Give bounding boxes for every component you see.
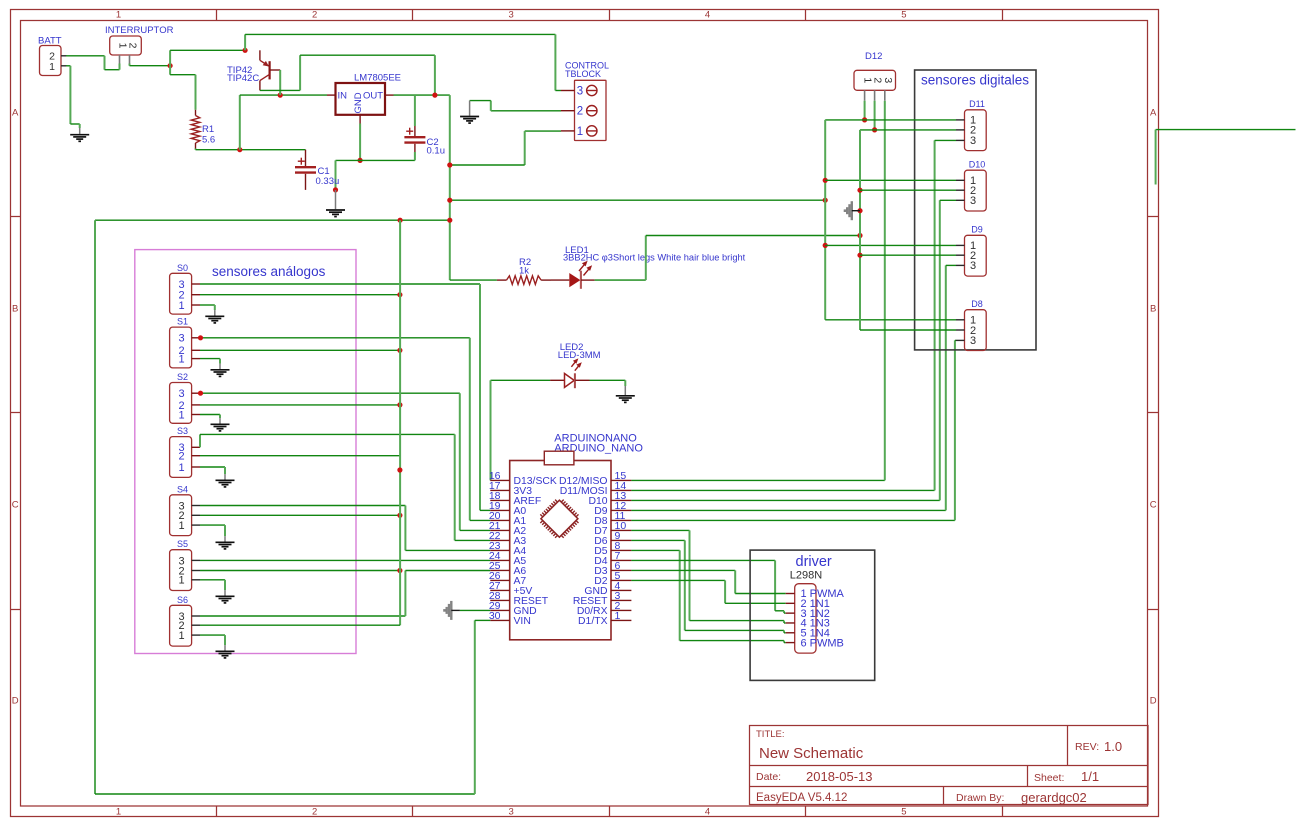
regulator U1 LM7805EE — [336, 73, 402, 115]
pin 29 GND of U2 — [489, 600, 537, 617]
pin 3 of S1 — [192, 337, 200, 339]
pin 18 AREF of U2 — [489, 490, 541, 507]
svg-text:1: 1 — [178, 520, 184, 532]
svg-text:S2: S2 — [177, 372, 188, 382]
svg-text:3: 3 — [577, 86, 583, 98]
junction S4.2 — [397, 513, 402, 518]
svg-text:TIP42C: TIP42C — [227, 73, 259, 84]
wire bus VIN loop top — [95, 219, 450, 221]
wire pin13 to D10.3 rail — [631, 200, 956, 500]
wire S5.2 to S rail — [200, 570, 400, 572]
svg-text:S1: S1 — [177, 317, 188, 327]
wire S4.2 to S rail — [200, 514, 400, 516]
pin 1 D1/TX of U2 — [578, 610, 631, 627]
pin 2 of D9 — [956, 254, 965, 256]
svg-text:INTERRUPTOR: INTERRUPTOR — [105, 25, 174, 36]
svg-text:1: 1 — [116, 10, 121, 21]
svg-text:S6: S6 — [177, 595, 188, 605]
label R2 1k — [519, 257, 531, 277]
label R1 value 5.6 — [202, 124, 215, 146]
wire junction up to TIP42 emitter node — [170, 50, 245, 65]
wire CONTROL pin1 to +5V rail — [450, 131, 561, 165]
svg-text:1: 1 — [615, 610, 621, 622]
LED LED1 — [551, 261, 595, 289]
pin 3 of D9 — [956, 264, 965, 266]
pin 3 of driver — [786, 608, 830, 620]
pin 9 D6 of U2 — [594, 530, 631, 547]
svg-text:L298N: L298N — [790, 570, 822, 582]
pin 23 A4 of U2 — [489, 540, 527, 557]
svg-text:C: C — [1150, 500, 1157, 511]
junction S5.2 — [397, 568, 402, 573]
pin 2 of S0 — [192, 294, 200, 296]
connector BATT — [38, 36, 62, 76]
wire S6.3 to A6 — [200, 571, 490, 617]
svg-text:3: 3 — [970, 195, 976, 207]
connector CONTROL TBLOCK — [565, 61, 609, 141]
svg-text:1: 1 — [49, 61, 55, 73]
pin 5 of driver — [786, 627, 830, 639]
pin 2 of S1 — [192, 349, 200, 351]
ground at S6 — [216, 645, 235, 658]
pin 3 of S0 — [192, 283, 200, 285]
wire LED2 cathode to ground — [590, 380, 626, 386]
wire S5.1 to ground — [200, 580, 225, 590]
svg-text:D12: D12 — [865, 51, 882, 62]
pin 14 D11/MOSI of U2 — [560, 480, 632, 497]
connector INTERRUPTOR — [105, 25, 174, 55]
wire R1 bottom to C1 top — [196, 149, 306, 150]
svg-text:3: 3 — [178, 388, 184, 400]
pin 20 A1 of U2 — [489, 510, 527, 527]
svg-text:OUT: OUT — [363, 91, 383, 102]
connector S5 — [170, 539, 192, 590]
svg-text:TBLOCK: TBLOCK — [565, 69, 601, 79]
connector S0 — [170, 263, 192, 314]
pin 3 of D8 — [956, 339, 965, 341]
wire S rail vertical to S6.2 — [200, 220, 400, 625]
wire TIP42 base to IN line — [279, 70, 281, 95]
ground at S0 — [205, 310, 224, 323]
svg-text:3: 3 — [970, 335, 976, 347]
pin 2 of D10 — [956, 189, 965, 191]
svg-text:IN: IN — [338, 91, 348, 102]
wire D12.2 down — [874, 101, 876, 130]
group box driver — [750, 550, 875, 680]
group box sensores analogos — [135, 250, 356, 654]
wire GND horizontal line — [336, 159, 415, 161]
svg-text:R1: R1 — [202, 124, 214, 135]
chip icon of U2 — [540, 500, 578, 538]
svg-text:3: 3 — [508, 10, 513, 21]
wire S0.1 to ground — [200, 305, 215, 310]
svg-text:1k: 1k — [519, 265, 529, 276]
svg-text:driver: driver — [796, 554, 832, 570]
wire +5V rail to R2 — [450, 279, 497, 281]
wire S2.2 to S rail — [200, 404, 400, 406]
connector D10 — [965, 159, 987, 211]
svg-text:2: 2 — [577, 106, 583, 118]
ground at LM7805 — [326, 190, 345, 217]
wire LM7805 GND down — [359, 124, 361, 161]
svg-text:LM7805EE: LM7805EE — [354, 73, 401, 84]
pin 2 of D8 — [956, 329, 965, 331]
pin 3 of D12 — [884, 90, 886, 100]
pin 6 of driver — [786, 637, 844, 649]
pin 3 of D10 — [956, 199, 965, 201]
wire S0.3 to A0 — [200, 284, 490, 510]
junction LED1 bus at rail B — [857, 233, 862, 238]
svg-text:3: 3 — [970, 260, 976, 272]
svg-text:1: 1 — [178, 462, 184, 474]
wire S1.1 to ground — [200, 359, 220, 364]
svg-text:D: D — [12, 696, 19, 707]
svg-text:6 PWMB: 6 PWMB — [801, 637, 844, 649]
junction S2.3 — [198, 391, 203, 396]
junction at INTERRUPTOR.2 node — [168, 63, 173, 68]
pin 1 of CONTROL TBLOCK — [561, 126, 597, 138]
svg-text:2: 2 — [127, 43, 139, 49]
pin 1 of INTERRUPTOR — [119, 55, 121, 64]
svg-text:1: 1 — [178, 630, 184, 642]
wire S4.3 to A4 — [200, 506, 490, 551]
pin 2 of S6 — [192, 624, 200, 626]
svg-text:1: 1 — [178, 354, 184, 366]
svg-text:A: A — [12, 108, 19, 119]
wire VIN pin30 down — [475, 619, 491, 621]
wire pin12 to D9.3 rail — [631, 265, 956, 510]
svg-text:D8: D8 — [971, 299, 983, 309]
ground at S5 — [216, 590, 235, 603]
svg-text:1.0: 1.0 — [1104, 739, 1122, 754]
pin 1 of S6 — [192, 634, 200, 636]
wire D9.2 to rail B — [860, 254, 956, 256]
junction rail B at flag — [857, 208, 862, 213]
capacitor C1 0.33u — [295, 150, 316, 190]
svg-text:4: 4 — [705, 10, 710, 21]
pin 1 of D8 — [956, 319, 965, 321]
svg-text:S4: S4 — [177, 484, 188, 494]
junction S1.3 — [198, 335, 203, 340]
capacitor C2 0.1u — [404, 95, 425, 160]
svg-text:B: B — [1150, 304, 1156, 315]
pin 16 D13/SCK of U2 — [489, 470, 557, 487]
pin 26 A7 of U2 — [489, 570, 527, 587]
pin 3 of S5 — [192, 559, 200, 561]
pin 1 of driver — [786, 588, 845, 600]
pin 1 of D9 — [956, 244, 965, 246]
junction D12.2 at D11.2 wire — [872, 127, 877, 132]
connector S1 — [170, 317, 192, 368]
wire D10.1 to rail A — [825, 179, 956, 181]
wire pin8 D5 to driver PWMB — [631, 550, 785, 642]
svg-text:S5: S5 — [177, 539, 188, 549]
pin 28 RESET of U2 — [489, 590, 549, 607]
svg-text:1/1: 1/1 — [1081, 769, 1099, 784]
svg-text:D1/TX: D1/TX — [578, 616, 608, 627]
pin 27 +5V of U2 — [489, 580, 533, 597]
ground at S4 — [216, 536, 235, 549]
wire S3.1 to ground — [200, 467, 225, 474]
wire D10.2 to rail B — [860, 189, 956, 191]
pin 1 of BATT — [61, 65, 67, 67]
svg-text:2: 2 — [312, 10, 317, 21]
wire S0.2 to S rail — [200, 294, 400, 296]
pin 1 of S3 — [192, 466, 200, 468]
svg-text:sensores análogos: sensores análogos — [212, 264, 326, 279]
svg-text:1: 1 — [116, 807, 121, 818]
wire S2.3 to A2 — [201, 393, 491, 530]
svg-text:gerardgc02: gerardgc02 — [1021, 790, 1087, 805]
wire bus +5V rail to digital rail A — [450, 199, 825, 201]
connector pins of driver L298N — [795, 584, 816, 653]
wire BATT.1 to ground — [66, 66, 80, 128]
pin 1 of S1 — [192, 358, 200, 360]
wire pin6 D3 to driver PWMA — [631, 570, 785, 593]
pin 1 of S0 — [192, 304, 200, 306]
pin 3 of S2 — [192, 392, 200, 394]
wire CONTROL pin2 to ground — [470, 101, 561, 111]
pin 8 D5 of U2 — [594, 540, 631, 557]
wire INTERRUPTOR.2 to junction — [130, 64, 171, 66]
svg-text:VIN: VIN — [514, 616, 531, 627]
junction at VIN bus and S rail — [398, 218, 403, 223]
pin 10 D7 of U2 — [594, 520, 631, 537]
pin 4 of driver — [786, 618, 830, 630]
svg-text:2: 2 — [312, 807, 317, 818]
svg-text:GND: GND — [353, 92, 364, 113]
pin 3 of D11 — [956, 139, 965, 141]
pin 12 D9 of U2 — [594, 500, 631, 517]
pin 7 D4 of U2 — [594, 550, 631, 567]
resistor R2 1k — [497, 276, 551, 285]
connector D9 — [965, 225, 987, 277]
svg-text:EasyEDA V5.4.12: EasyEDA V5.4.12 — [756, 792, 847, 804]
pin 22 A3 of U2 — [489, 530, 527, 547]
junction rail A at D10.1 — [823, 178, 828, 183]
pin 1 of D12 — [864, 90, 866, 100]
svg-text:B: B — [12, 304, 18, 315]
ground at S1 — [211, 364, 230, 377]
svg-text:2: 2 — [178, 451, 184, 463]
svg-text:5.6: 5.6 — [202, 135, 215, 146]
wire S3.3 to A3 — [200, 434, 490, 540]
svg-text:1: 1 — [178, 575, 184, 587]
wire digital rail B D11.2 to D8.2 — [860, 130, 956, 330]
wire S4.1 to ground — [200, 525, 225, 536]
connector D11 — [965, 99, 987, 151]
svg-text:4: 4 — [705, 807, 710, 818]
junction S2.2 — [397, 402, 402, 407]
pin 2 of D11 — [956, 129, 965, 131]
pin 1 of D11 — [956, 119, 965, 121]
IC U2 ARDUINONANO — [510, 432, 644, 640]
junction at VIN bus and +5V rail — [447, 218, 452, 223]
pin 1 of S4 — [192, 524, 200, 526]
wire S2.1 to ground — [200, 415, 220, 419]
svg-text:New Schematic: New Schematic — [759, 745, 864, 762]
junction on S rail — [397, 467, 402, 472]
connector S3 — [170, 426, 192, 477]
ground flag at digital rail B — [845, 201, 860, 220]
connector D12 — [854, 51, 896, 90]
junction rail A at D9.1 — [823, 243, 828, 248]
pin 6 D3 of U2 — [594, 560, 631, 577]
junction at C1 bottom node — [333, 187, 338, 192]
pin 2 of S3 — [192, 455, 200, 457]
wire LED2 anode to D13 pin16 — [491, 380, 551, 480]
ground at BATT — [70, 128, 89, 141]
svg-text:D10: D10 — [969, 159, 986, 169]
svg-text:S3: S3 — [177, 426, 188, 436]
svg-text:D: D — [1150, 696, 1157, 707]
title block — [750, 726, 1149, 806]
ground at LED2 — [616, 386, 635, 402]
pin 2 of D12 — [874, 90, 876, 100]
wire junction up to IN line — [240, 95, 327, 150]
connector S4 — [170, 484, 192, 535]
connector D8 — [965, 299, 987, 351]
pin 2 of INTERRUPTOR — [129, 55, 131, 64]
wire S6.1 to ground — [200, 635, 225, 645]
svg-text:S0: S0 — [177, 263, 188, 273]
wire emitter node to CONTROL TBLOCK pin 3 — [245, 34, 561, 90]
pin IN of LM7805 — [327, 94, 336, 96]
wire S3.2 to S rail — [200, 455, 400, 457]
pin 24 A5 of U2 — [489, 550, 527, 567]
wire S5.3 to A5 — [200, 559, 490, 561]
wire TIP42 collector loop to OUT node — [260, 55, 435, 95]
wire external net at right border — [1156, 130, 1296, 185]
wire junction down to R1 — [170, 66, 195, 110]
pin 4 GND of U2 — [584, 580, 631, 597]
connector S2 — [170, 372, 192, 423]
wire GND down to C1 bottom node — [335, 160, 337, 190]
svg-text:3: 3 — [508, 807, 513, 818]
wire pin10 D7 to driver 1N3 — [631, 530, 785, 623]
junction S0.2 — [397, 292, 402, 297]
wire D9.1 to rail A — [825, 244, 956, 246]
wire pin7 D4 to driver 1N2 — [631, 560, 785, 613]
junction at GND node — [358, 158, 363, 163]
svg-text:Sheet:: Sheet: — [1034, 772, 1064, 784]
pin 5 D2 of U2 — [594, 570, 631, 587]
pin 3 of S4 — [192, 505, 200, 507]
junction D12.1 at D11.1 wire — [862, 117, 867, 122]
group box sensores digitales — [915, 70, 1036, 350]
svg-text:D11: D11 — [969, 99, 985, 109]
svg-text:3: 3 — [178, 333, 184, 345]
svg-text:Date:: Date: — [756, 771, 781, 783]
pin 11 D8 of U2 — [594, 510, 631, 527]
pin 15 D12/MISO of U2 — [559, 470, 631, 487]
svg-text:REV:: REV: — [1075, 741, 1099, 753]
pin OUT of LM7805 — [385, 94, 394, 96]
junction rail B at D10.2 — [857, 188, 862, 193]
pin 2 D0/RX of U2 — [577, 600, 632, 617]
svg-text:1: 1 — [178, 300, 184, 312]
pin 2 of S2 — [192, 404, 200, 406]
transistor TIP42 — [260, 50, 280, 90]
svg-text:5: 5 — [901, 10, 906, 21]
junction bus left end — [447, 198, 452, 203]
junction S1.2 — [397, 348, 402, 353]
ground at S2 — [211, 418, 230, 431]
pin 1 of S5 — [192, 579, 200, 581]
svg-text:30: 30 — [489, 610, 501, 622]
pin 13 D10 of U2 — [588, 490, 631, 507]
pin 2 of driver — [786, 598, 830, 610]
pin 2 of S4 — [192, 514, 200, 516]
ground at CONTROL TBLOCK — [460, 101, 479, 124]
connector S6 — [170, 595, 192, 646]
svg-text:D9: D9 — [971, 225, 983, 235]
junction at OUT node — [432, 93, 437, 98]
wire pin11 to D8.3 rail — [631, 340, 956, 520]
svg-text:2018-05-13: 2018-05-13 — [806, 769, 873, 784]
pin 30 VIN of U2 — [489, 610, 531, 627]
wire S1.3 to A1 — [201, 338, 491, 521]
pin 3 of S3 — [192, 446, 200, 448]
svg-text:Drawn By:: Drawn By: — [956, 792, 1004, 804]
junction at TIP42 base node — [278, 93, 283, 98]
wire VIN loop left and bottom — [95, 220, 475, 794]
pin 25 A6 of U2 — [489, 560, 527, 577]
svg-text:1: 1 — [178, 409, 184, 421]
pin 3 of S6 — [192, 615, 200, 617]
pin 21 A2 of U2 — [489, 520, 527, 537]
svg-text:3: 3 — [970, 135, 976, 147]
label LED2 LED-3MM — [558, 342, 601, 361]
label TIP42 TIP42C — [227, 65, 259, 84]
svg-text:LED-3MM: LED-3MM — [558, 350, 601, 361]
pin 2 of S5 — [192, 570, 200, 572]
wire pin14 to D11.3 rail — [631, 140, 956, 490]
junction at R1 bottom rail — [237, 147, 242, 152]
wire LED1 cathode to digital rail B — [595, 236, 860, 281]
label C1 0.33u — [316, 166, 340, 187]
svg-text:sensores digitales: sensores digitales — [921, 73, 1029, 88]
pin 19 A0 of U2 — [489, 500, 527, 517]
pin 3 of CONTROL TBLOCK — [561, 85, 597, 97]
wire flag to pin29 — [460, 609, 490, 611]
svg-text:TITLE:: TITLE: — [756, 729, 785, 740]
junction bus right end — [823, 198, 828, 203]
pin 2 of BATT — [61, 55, 67, 57]
label C2 0.1u — [427, 137, 446, 157]
junction rail B at D9.2 — [857, 253, 862, 258]
wire digital rail A D11.1 to D8.1 — [825, 120, 956, 320]
svg-text:A: A — [1150, 108, 1157, 119]
svg-text:1: 1 — [577, 126, 583, 138]
pin 2 of CONTROL TBLOCK — [561, 106, 597, 118]
LED LED2 — [550, 358, 589, 388]
junction at +5V rail and CONTROL pin1 — [447, 162, 452, 167]
svg-text:0.1u: 0.1u — [427, 146, 446, 157]
wire D12.1 down — [864, 101, 866, 120]
ground at S3 — [216, 474, 235, 487]
svg-text:3: 3 — [882, 77, 894, 83]
svg-text:C: C — [12, 500, 19, 511]
wire pin9 D6 to driver 1N4 — [631, 540, 785, 632]
label LED1 description — [563, 245, 746, 263]
pin 17 3V3 of U2 — [489, 480, 532, 497]
pin 3 RESET of U2 — [573, 590, 632, 607]
junction at TIP42 emitter node — [243, 48, 248, 53]
wire OUT to +5V rail — [394, 95, 450, 280]
ground flag at U2 pin29 GND — [444, 601, 460, 620]
wire pin15 to D12.3 rail — [631, 101, 884, 481]
